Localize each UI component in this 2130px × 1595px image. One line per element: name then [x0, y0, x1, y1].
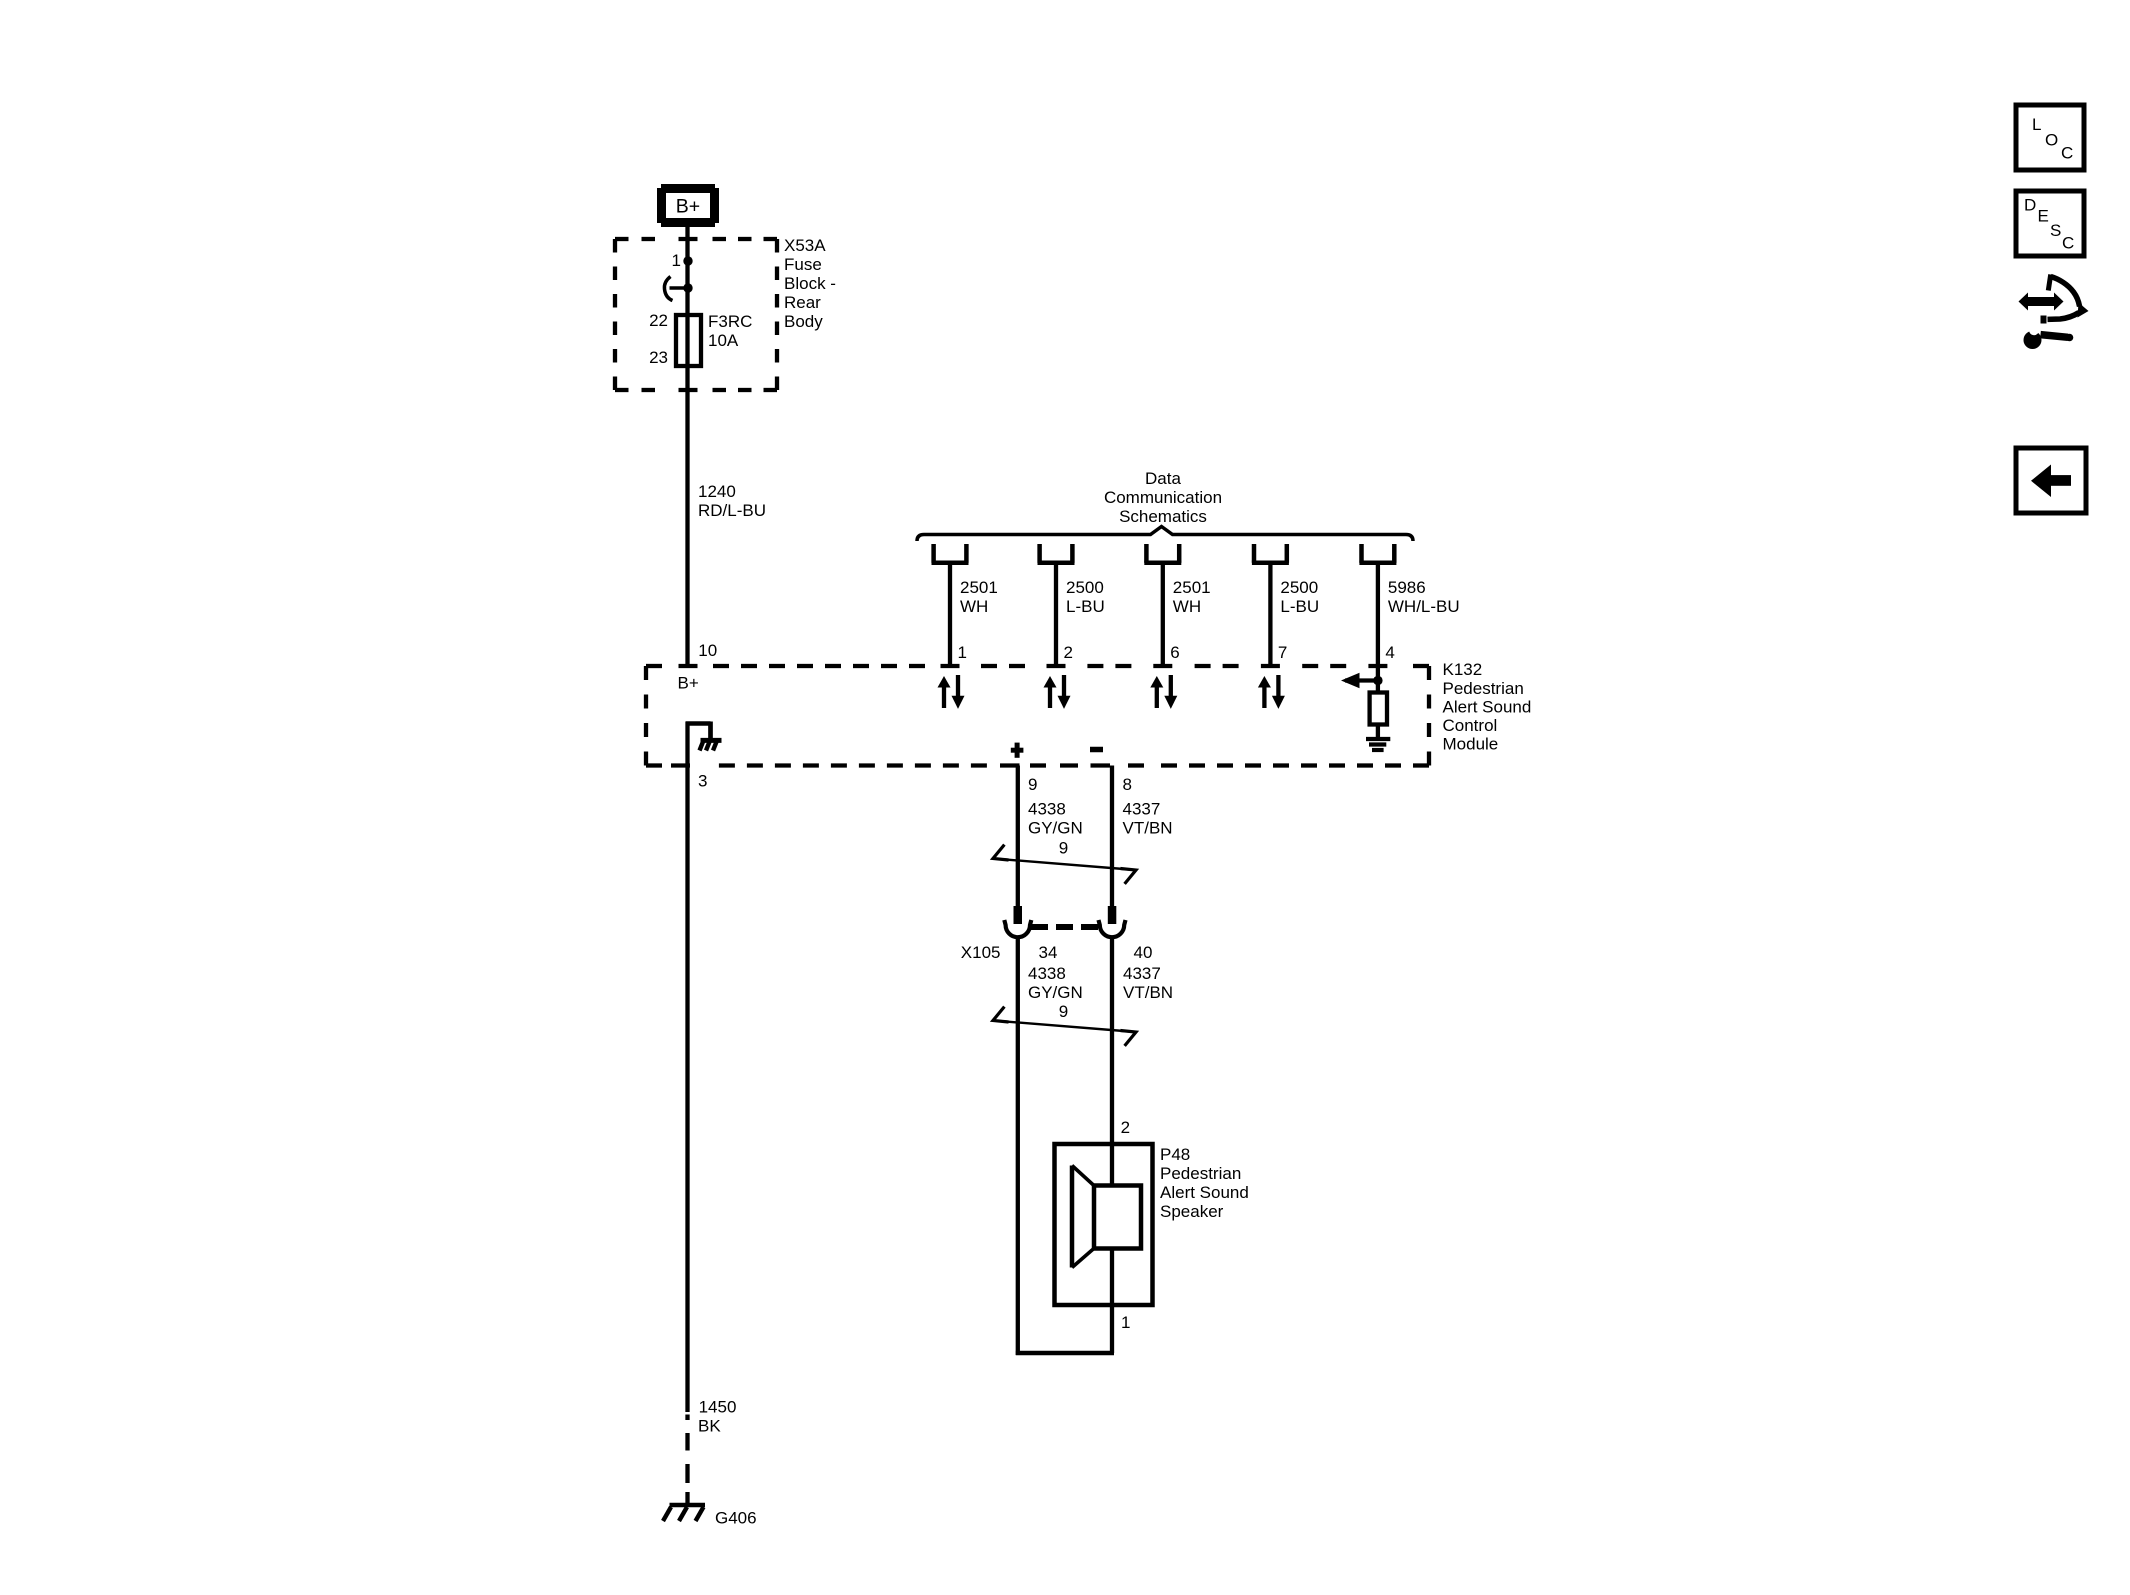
svg-text:Pedestrian: Pedestrian [1160, 1164, 1241, 1183]
svg-text:1240: 1240 [698, 482, 736, 501]
svg-text:Body: Body [784, 312, 823, 331]
svg-text:GY/GN: GY/GN [1028, 983, 1083, 1002]
svg-text:Control: Control [1443, 716, 1498, 735]
svg-text:VT/BN: VT/BN [1123, 819, 1173, 838]
svg-text:Alert Sound: Alert Sound [1160, 1183, 1249, 1202]
svg-text:40: 40 [1134, 943, 1153, 962]
svg-text:1450: 1450 [699, 1398, 737, 1417]
svg-text:C: C [2062, 234, 2074, 253]
svg-text:22: 22 [649, 311, 668, 330]
svg-text:Fuse: Fuse [784, 255, 822, 274]
svg-text:L: L [2032, 115, 2041, 134]
svg-text:D: D [2024, 196, 2036, 215]
svg-text:8: 8 [1123, 775, 1132, 794]
svg-text:Speaker: Speaker [1160, 1202, 1224, 1221]
svg-text:Module: Module [1443, 735, 1499, 754]
svg-text:WH: WH [1173, 597, 1201, 616]
svg-text:4337: 4337 [1123, 800, 1161, 819]
svg-text:Schematics: Schematics [1119, 507, 1207, 526]
svg-text:10A: 10A [708, 331, 739, 350]
svg-text:BK: BK [698, 1417, 721, 1436]
svg-text:L-BU: L-BU [1280, 597, 1319, 616]
svg-text:1: 1 [958, 643, 967, 662]
svg-text:RD/L-BU: RD/L-BU [698, 501, 766, 520]
svg-text:WH: WH [960, 597, 988, 616]
svg-text:6: 6 [1170, 643, 1179, 662]
svg-text:9: 9 [1059, 1002, 1068, 1021]
svg-text:Data: Data [1145, 469, 1181, 488]
svg-text:3: 3 [698, 772, 707, 791]
svg-text:Rear: Rear [784, 293, 821, 312]
svg-text:9: 9 [1059, 839, 1068, 858]
svg-text:1: 1 [672, 251, 681, 270]
svg-text:7: 7 [1278, 643, 1287, 662]
svg-text:23: 23 [649, 348, 668, 367]
svg-text:VT/BN: VT/BN [1123, 983, 1173, 1002]
svg-text:Pedestrian: Pedestrian [1443, 679, 1524, 698]
svg-text:K132: K132 [1443, 660, 1483, 679]
svg-text:C: C [2061, 144, 2073, 163]
svg-text:2501: 2501 [960, 578, 998, 597]
svg-text:10: 10 [698, 641, 717, 660]
svg-text:X105: X105 [961, 943, 1001, 962]
svg-text:Alert Sound: Alert Sound [1443, 698, 1532, 717]
svg-text:B+: B+ [676, 196, 700, 218]
svg-text:2500: 2500 [1066, 578, 1104, 597]
svg-text:1: 1 [1121, 1313, 1130, 1332]
svg-text:B+: B+ [678, 674, 699, 693]
svg-text:E: E [2038, 207, 2049, 226]
svg-text:4338: 4338 [1028, 964, 1066, 983]
svg-text:4337: 4337 [1123, 964, 1161, 983]
svg-text:X53A: X53A [784, 236, 826, 255]
svg-text:2501: 2501 [1173, 578, 1211, 597]
svg-text:2: 2 [1064, 643, 1073, 662]
svg-text:5986: 5986 [1388, 578, 1426, 597]
svg-text:2: 2 [1121, 1118, 1130, 1137]
svg-text:L-BU: L-BU [1066, 597, 1105, 616]
svg-text:2500: 2500 [1280, 578, 1318, 597]
svg-text:34: 34 [1039, 943, 1058, 962]
svg-text:O: O [2045, 131, 2058, 150]
svg-text:WH/L-BU: WH/L-BU [1388, 597, 1460, 616]
svg-text:4: 4 [1385, 643, 1394, 662]
svg-text:P48: P48 [1160, 1145, 1190, 1164]
svg-text:F3RC: F3RC [708, 312, 752, 331]
svg-text:4338: 4338 [1028, 800, 1066, 819]
svg-text:G406: G406 [715, 1509, 757, 1528]
svg-text:S: S [2050, 221, 2061, 240]
svg-text:Communication: Communication [1104, 488, 1222, 507]
svg-text:Block -: Block - [784, 274, 836, 293]
svg-text:9: 9 [1028, 775, 1037, 794]
svg-text:GY/GN: GY/GN [1028, 819, 1083, 838]
